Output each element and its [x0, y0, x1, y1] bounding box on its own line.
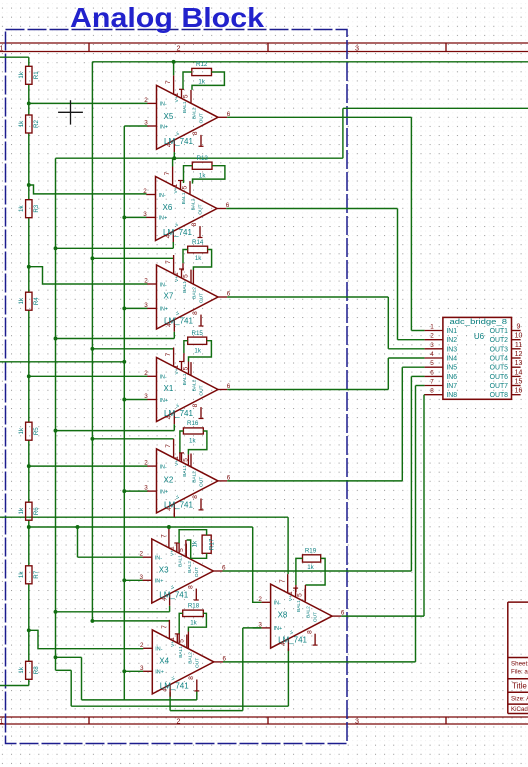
svg-text:1k: 1k: [307, 564, 314, 571]
svg-text:V-: V-: [175, 310, 181, 315]
svg-text:V+: V+: [173, 187, 179, 193]
svg-text:R5: R5: [33, 427, 40, 435]
svg-text:2: 2: [177, 44, 181, 53]
svg-text:3: 3: [430, 342, 434, 349]
svg-text:8: 8: [192, 495, 199, 499]
svg-text:R18: R18: [188, 602, 200, 609]
svg-text:BAL2: BAL2: [306, 606, 312, 618]
svg-text:1k: 1k: [18, 205, 25, 212]
svg-text:1: 1: [430, 324, 434, 331]
svg-text:X3: X3: [159, 566, 169, 575]
svg-text:IN+: IN+: [160, 124, 169, 130]
svg-text:8: 8: [430, 388, 434, 395]
svg-text:OUT4: OUT4: [490, 356, 509, 363]
svg-text:R1: R1: [33, 71, 40, 79]
svg-text:R19: R19: [305, 548, 317, 555]
svg-text:R4: R4: [33, 297, 40, 305]
svg-text:5: 5: [183, 274, 190, 278]
svg-text:1: 1: [168, 546, 175, 550]
svg-text:KiCad: KiCad: [511, 706, 528, 713]
svg-text:IN5: IN5: [446, 365, 457, 372]
svg-text:X8: X8: [278, 611, 288, 620]
svg-text:1: 1: [0, 44, 4, 53]
svg-text:V+: V+: [288, 595, 294, 601]
svg-text:3: 3: [355, 716, 359, 725]
svg-text:BAL1: BAL1: [182, 101, 188, 113]
svg-text:7: 7: [165, 352, 172, 356]
svg-text:1k: 1k: [18, 507, 25, 514]
svg-text:BAL2: BAL2: [191, 198, 197, 210]
svg-text:R17: R17: [209, 538, 216, 550]
svg-text:1: 1: [173, 456, 180, 460]
svg-text:2: 2: [144, 278, 148, 285]
svg-text:3: 3: [144, 302, 148, 309]
svg-text:V+: V+: [170, 641, 176, 647]
svg-text:12: 12: [515, 351, 523, 358]
svg-text:OUT: OUT: [199, 385, 205, 395]
svg-text:V+: V+: [174, 368, 180, 374]
svg-text:OUT5: OUT5: [490, 365, 509, 372]
svg-text:3: 3: [144, 393, 148, 400]
svg-text:IN+: IN+: [159, 216, 168, 222]
svg-text:BAL1: BAL1: [177, 555, 183, 567]
svg-text:Size: A: Size: A: [511, 696, 528, 703]
svg-text:V-: V-: [171, 675, 177, 680]
svg-text:7: 7: [160, 534, 167, 538]
svg-text:IN2: IN2: [446, 337, 457, 344]
svg-text:BAL1: BAL1: [296, 600, 302, 612]
svg-text:IN-: IN-: [155, 647, 162, 653]
svg-text:LM_741: LM_741: [164, 137, 193, 146]
svg-text:8: 8: [192, 403, 199, 407]
svg-text:OUT: OUT: [194, 567, 200, 577]
svg-text:3: 3: [140, 665, 144, 672]
svg-text:LM_741: LM_741: [163, 228, 192, 237]
svg-text:1: 1: [172, 183, 179, 187]
svg-text:X1: X1: [164, 384, 174, 393]
svg-text:V-: V-: [175, 494, 181, 499]
svg-text:1k: 1k: [189, 437, 196, 444]
svg-text:2: 2: [144, 370, 148, 377]
svg-text:V+: V+: [174, 276, 180, 282]
svg-text:LM_741: LM_741: [164, 500, 193, 509]
svg-text:LM_741: LM_741: [278, 636, 307, 645]
svg-text:BAL2: BAL2: [192, 287, 198, 299]
svg-text:1k: 1k: [18, 71, 25, 78]
svg-text:IN8: IN8: [446, 392, 457, 399]
svg-text:IN-: IN-: [160, 464, 167, 470]
svg-text:IN+: IN+: [274, 626, 283, 632]
svg-text:10: 10: [515, 333, 523, 340]
svg-text:2: 2: [430, 333, 434, 340]
svg-text:16: 16: [515, 388, 523, 395]
svg-text:8: 8: [192, 311, 199, 315]
svg-text:R7: R7: [33, 570, 40, 578]
svg-text:V+: V+: [174, 460, 180, 466]
svg-text:1k: 1k: [194, 347, 201, 354]
svg-text:7: 7: [165, 444, 172, 448]
svg-text:R12: R12: [196, 61, 208, 68]
svg-text:IN-: IN-: [160, 282, 167, 288]
svg-text:IN3: IN3: [446, 346, 457, 353]
svg-text:13: 13: [515, 360, 523, 367]
svg-text:X5: X5: [164, 112, 174, 121]
svg-text:BAL1: BAL1: [178, 646, 184, 658]
svg-text:3: 3: [140, 574, 144, 581]
svg-text:V-: V-: [170, 584, 176, 589]
svg-text:1k: 1k: [18, 666, 25, 673]
svg-text:8: 8: [188, 585, 195, 589]
svg-text:LM_741: LM_741: [164, 409, 193, 418]
svg-text:1k: 1k: [18, 297, 25, 304]
svg-text:IN+: IN+: [160, 489, 169, 495]
svg-text:R6: R6: [33, 507, 40, 515]
svg-text:5: 5: [183, 94, 190, 98]
svg-text:BAL1: BAL1: [182, 281, 188, 293]
svg-text:2: 2: [177, 716, 181, 725]
svg-text:IN7: IN7: [446, 383, 457, 390]
svg-text:1k: 1k: [18, 120, 25, 127]
svg-text:4: 4: [430, 351, 434, 358]
svg-text:R13: R13: [197, 155, 209, 162]
svg-text:OUT: OUT: [198, 204, 204, 214]
svg-text:R16: R16: [187, 420, 199, 427]
svg-text:OUT: OUT: [199, 477, 205, 487]
svg-text:1k: 1k: [198, 79, 205, 86]
svg-text:OUT6: OUT6: [490, 374, 509, 381]
svg-text:3: 3: [144, 485, 148, 492]
svg-text:1: 1: [0, 716, 4, 725]
svg-text:8: 8: [192, 131, 199, 135]
svg-text:15: 15: [515, 379, 523, 386]
svg-text:BAL2: BAL2: [192, 107, 198, 119]
svg-text:X6: X6: [163, 203, 173, 212]
svg-text:R3: R3: [33, 204, 40, 212]
svg-text:BAL2: BAL2: [192, 471, 198, 483]
svg-text:IN-: IN-: [155, 556, 162, 562]
svg-text:BAL1: BAL1: [182, 373, 188, 385]
svg-text:IN4: IN4: [446, 356, 457, 363]
svg-text:LM_741: LM_741: [159, 591, 188, 600]
svg-text:R14: R14: [192, 239, 204, 246]
svg-text:V-: V-: [174, 222, 180, 227]
svg-text:OUT: OUT: [199, 113, 205, 123]
svg-text:LM_741: LM_741: [160, 681, 189, 690]
svg-text:IN-: IN-: [160, 375, 167, 381]
svg-text:1: 1: [173, 272, 180, 276]
svg-text:BAL1: BAL1: [181, 192, 187, 204]
svg-text:1k: 1k: [192, 540, 199, 547]
svg-text:BAL1: BAL1: [182, 465, 188, 477]
svg-text:2: 2: [144, 460, 148, 467]
svg-text:BAL2: BAL2: [192, 379, 198, 391]
svg-text:7: 7: [430, 379, 434, 386]
svg-text:1k: 1k: [18, 571, 25, 578]
svg-text:2: 2: [144, 97, 148, 104]
svg-text:OUT: OUT: [199, 293, 205, 303]
svg-text:IN6: IN6: [446, 374, 457, 381]
svg-text:V+: V+: [174, 96, 180, 102]
svg-text:5: 5: [182, 185, 189, 189]
svg-text:R8: R8: [33, 666, 40, 674]
svg-text:IN-: IN-: [160, 102, 167, 108]
svg-text:IN-: IN-: [159, 193, 166, 199]
svg-text:IN-: IN-: [274, 601, 281, 607]
svg-text:IN+: IN+: [160, 307, 169, 313]
svg-text:V+: V+: [169, 550, 175, 556]
svg-text:1: 1: [173, 364, 180, 368]
svg-text:BAL2: BAL2: [187, 652, 193, 664]
svg-text:File: an: File: an: [511, 669, 528, 676]
svg-text:BAL2: BAL2: [187, 561, 193, 573]
svg-text:Title: Title: [512, 682, 527, 691]
svg-text:U6: U6: [474, 332, 485, 341]
svg-text:V-: V-: [289, 629, 295, 634]
svg-text:8: 8: [188, 676, 195, 680]
svg-text:X7: X7: [164, 292, 174, 301]
svg-text:V-: V-: [175, 403, 181, 408]
svg-text:3: 3: [144, 120, 148, 127]
svg-text:2: 2: [143, 188, 147, 195]
svg-text:adc_bridge_8: adc_bridge_8: [450, 317, 508, 326]
svg-text:1k: 1k: [195, 255, 202, 262]
svg-text:8: 8: [191, 222, 198, 226]
svg-text:1: 1: [287, 591, 294, 595]
svg-text:9: 9: [517, 324, 521, 331]
svg-text:OUT: OUT: [313, 612, 319, 622]
svg-text:Analog Block: Analog Block: [70, 2, 264, 33]
svg-text:1: 1: [173, 92, 180, 96]
svg-text:3: 3: [143, 211, 147, 218]
svg-text:1k: 1k: [199, 172, 206, 179]
svg-text:OUT8: OUT8: [490, 392, 509, 399]
svg-text:14: 14: [515, 369, 523, 376]
svg-text:OUT7: OUT7: [490, 383, 509, 390]
svg-text:OUT1: OUT1: [490, 328, 509, 335]
svg-text:IN+: IN+: [155, 670, 164, 676]
svg-text:R15: R15: [192, 330, 204, 337]
svg-text:8: 8: [306, 630, 313, 634]
svg-text:IN+: IN+: [160, 398, 169, 404]
svg-text:2: 2: [140, 642, 144, 649]
svg-text:2: 2: [140, 551, 144, 558]
svg-text:IN+: IN+: [155, 579, 164, 585]
svg-text:7: 7: [279, 579, 286, 583]
svg-text:7: 7: [164, 171, 171, 175]
svg-text:11: 11: [515, 342, 522, 349]
svg-text:3: 3: [355, 44, 359, 53]
svg-text:1: 1: [169, 637, 176, 641]
svg-text:5: 5: [430, 360, 434, 367]
svg-text:7: 7: [165, 260, 172, 264]
svg-text:OUT2: OUT2: [490, 337, 509, 344]
svg-text:1k: 1k: [190, 619, 197, 626]
svg-text:7: 7: [161, 625, 168, 629]
svg-text:1k: 1k: [18, 427, 25, 434]
svg-text:Sheet: /: Sheet: /: [511, 660, 528, 667]
svg-text:LM_741: LM_741: [164, 317, 193, 326]
svg-text:5: 5: [297, 593, 304, 597]
svg-text:R2: R2: [33, 119, 40, 127]
svg-text:6: 6: [430, 369, 434, 376]
svg-text:IN1: IN1: [446, 328, 457, 335]
svg-text:OUT: OUT: [194, 658, 200, 668]
svg-text:7: 7: [165, 80, 172, 84]
svg-text:X4: X4: [159, 656, 169, 665]
svg-text:OUT3: OUT3: [490, 346, 509, 353]
svg-text:V-: V-: [175, 131, 181, 136]
svg-text:X2: X2: [164, 475, 174, 484]
